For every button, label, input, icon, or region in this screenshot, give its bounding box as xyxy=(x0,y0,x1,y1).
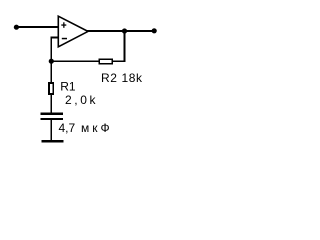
wire capacitor to ground xyxy=(50,120,52,140)
wire op-amp - input horizontal xyxy=(50,37,58,39)
svg-text:4,7: 4,7 xyxy=(59,121,76,135)
wire feedback horizontal xyxy=(50,60,125,62)
node output terminal xyxy=(152,28,157,33)
svg-text:2,0k: 2,0k xyxy=(65,93,98,107)
svg-text:мкФ: мкФ xyxy=(81,121,113,135)
wire feedback vertical xyxy=(124,30,126,61)
wire input to op-amp + xyxy=(16,26,59,28)
svg-text:R2 18k: R2 18k xyxy=(101,71,143,85)
capacitor C1 xyxy=(40,113,63,120)
resistor R1 xyxy=(48,82,54,95)
ground xyxy=(41,140,63,143)
node A junction inverting input xyxy=(49,59,54,64)
op-amp U1 xyxy=(58,16,88,47)
svg-text:R1: R1 xyxy=(60,80,76,94)
resistor R2 xyxy=(98,58,113,64)
node B junction output/feedback xyxy=(122,28,127,33)
node input terminal xyxy=(14,25,19,30)
wire output xyxy=(87,30,155,32)
wire left vertical (inverting node down to capacitor) xyxy=(50,37,52,114)
label 4,7 мкФ xyxy=(59,121,113,135)
